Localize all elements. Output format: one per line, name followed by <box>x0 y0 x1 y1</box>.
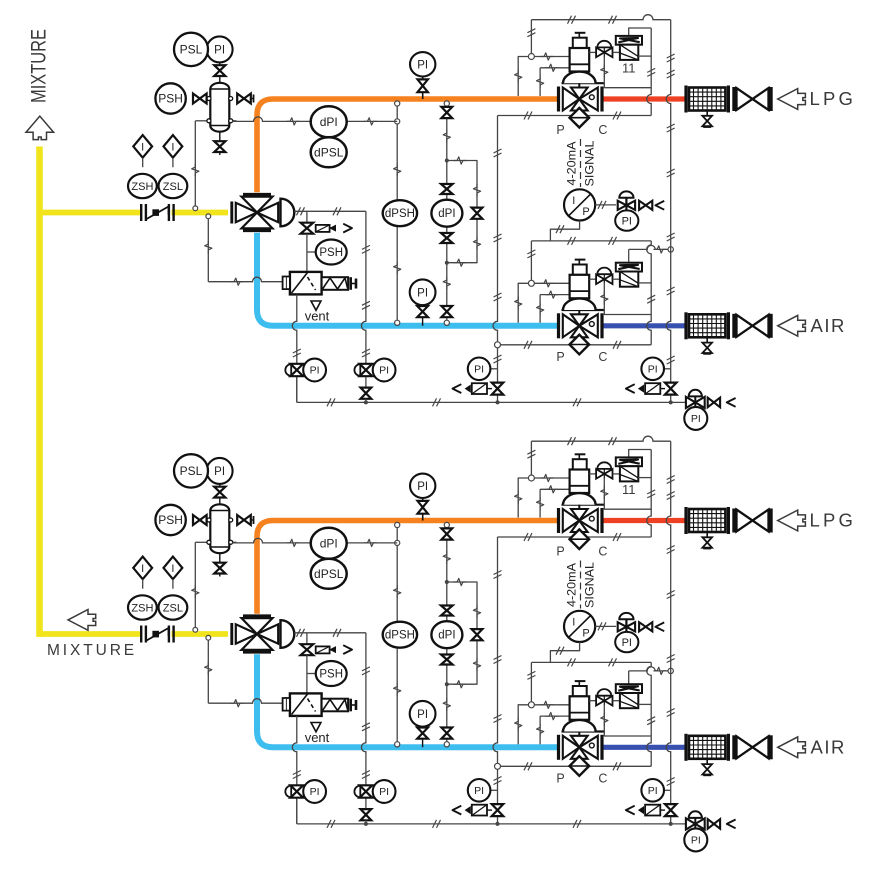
main signal rail bottom (unit 1) <box>297 401 687 403</box>
valve stem (unit 1 LPG) <box>578 83 580 99</box>
svg-text:PI: PI <box>691 413 701 425</box>
svg-text:PI: PI <box>214 466 225 478</box>
vessel top valve (unit 2) <box>219 498 221 505</box>
vent arrow (unit 1) <box>311 301 321 310</box>
svg-text:dPSL: dPSL <box>314 567 344 581</box>
svg-text:PSH: PSH <box>158 513 183 527</box>
svg-text:LPG: LPG <box>810 510 857 531</box>
vessel left isolation valve (unit 2) <box>193 515 200 525</box>
line to solenoid (unit 1) <box>306 234 308 272</box>
position switch ZSL (unit 1) <box>159 174 188 198</box>
solenoid spring (unit 1) <box>322 277 349 290</box>
solenoid spring (unit 2) <box>322 699 349 712</box>
LPG inlet valve (unit 1) <box>732 87 735 111</box>
dPI gauge (unit 1) <box>431 200 462 227</box>
check valve (unit 2) <box>140 626 142 643</box>
positioner body (unit 2 LPG) <box>620 466 638 481</box>
vent pilot valve (unit 2) <box>301 644 314 650</box>
actuator diaphragm (unit 1 AIR) <box>562 309 605 311</box>
diaphragm tap line (unit 1 AIR) <box>604 284 651 315</box>
left signal drop (unit 2 LPG) <box>530 441 532 478</box>
three-way valve actuator (unit 2) <box>281 620 295 648</box>
diaphragm tap line (unit 1 LPG) <box>604 57 651 88</box>
mixture header pipe (yellow vertical) <box>36 147 43 637</box>
rail end valve with regulator (unit 1) <box>689 390 702 397</box>
svg-text:PSL: PSL <box>180 464 203 478</box>
svg-text:dPSH: dPSH <box>385 208 415 220</box>
rail end valve with regulator (unit 2) <box>689 811 702 818</box>
svg-text:dPI: dPI <box>320 537 338 551</box>
diaphragm port diamond (unit 2 AIR) <box>578 759 580 766</box>
pilot valve (unit 2 AIR) <box>589 700 596 702</box>
valve stem (unit 2 LPG) <box>578 505 580 521</box>
diaphragm port diamond (unit 1 AIR) <box>578 337 580 344</box>
svg-text:P: P <box>556 771 564 785</box>
PI below I-P valve (unit 1) <box>615 210 638 230</box>
flame arrestor LPG (unit 1) <box>689 88 725 111</box>
positioner spring box (unit 2 AIR) <box>616 684 642 693</box>
signal line right (unit 1 AIR) <box>647 241 651 345</box>
svg-text:dPI: dPI <box>438 630 455 642</box>
dPSH switch (unit 2) <box>383 622 417 648</box>
main signal rail bottom (unit 2) <box>297 823 687 825</box>
cyan air pipe (unit 2) <box>257 654 557 747</box>
diaphragm port diamond (unit 2 LPG) <box>578 532 580 539</box>
svg-text:LPG: LPG <box>810 88 857 109</box>
svg-text:PSH: PSH <box>158 92 183 106</box>
three-way valve actuator (unit 1) <box>281 199 295 227</box>
svg-text:4-20mA: 4-20mA <box>565 142 579 186</box>
signal line from 3-way actuator (unit 1) <box>361 211 366 363</box>
vessel left isolation valve (unit 1) <box>193 94 200 104</box>
AIR inlet valve (unit 1) <box>732 314 735 338</box>
solenoid outlet line (unit 1) <box>292 294 297 402</box>
LPG flow arrow (unit 1) <box>778 89 806 110</box>
I/P converter (unit 1) <box>564 189 595 220</box>
actuator signal line (unit 1) <box>294 210 366 212</box>
actuator diaphragm (unit 2 AIR) <box>562 730 605 732</box>
vent pilot valve (unit 1) <box>301 223 314 229</box>
pneumatic top rail (unit 2 AIR) <box>531 661 651 663</box>
svg-text:PI: PI <box>417 287 428 299</box>
pressure tap 2 (unit 2 LPG) <box>539 489 541 517</box>
svg-text:C: C <box>598 771 607 785</box>
positioner loop top (unit 1 AIR) <box>629 245 671 249</box>
svg-text:PI: PI <box>648 785 658 797</box>
line to solenoid (unit 2) <box>306 655 308 693</box>
vessel top valve (unit 1) <box>219 76 221 83</box>
PI gauge on air pipe (unit 1) <box>422 305 424 326</box>
solenoid outlet line (unit 2) <box>292 716 297 824</box>
diaphragm tap line (unit 2 AIR) <box>604 705 651 736</box>
vent arrow (unit 2) <box>311 723 321 732</box>
pneumatic bottom rail (unit 2 AIR) <box>498 765 652 767</box>
svg-text:PI: PI <box>474 785 484 797</box>
LPG flow arrow (unit 2) <box>778 510 806 531</box>
dPSH switch (unit 1) <box>383 200 417 226</box>
svg-text:PSH: PSH <box>319 247 343 259</box>
tap branch to actuator (unit 1 LPG) <box>534 56 569 58</box>
svg-text:P: P <box>556 545 564 559</box>
svg-text:I: I <box>572 616 575 628</box>
red LPG pipe (unit 2) <box>604 518 686 523</box>
svg-text:dPSL: dPSL <box>314 146 344 160</box>
positioner spring box (unit 2 LPG) <box>616 457 642 466</box>
svg-text:dPI: dPI <box>438 208 455 220</box>
PI gauge on LPG pipe (unit 1) <box>422 77 424 100</box>
yellow mixture pipe (unit 2) <box>40 631 143 637</box>
pneumatic bottom rail (unit 1 AIR) <box>498 344 652 346</box>
svg-text:C: C <box>598 123 607 137</box>
pneumatic top rail (unit 1 LPG) <box>531 15 670 20</box>
left signal drop (unit 2 AIR) <box>530 662 532 704</box>
pressure tap left (unit 2 LPG) <box>518 478 528 518</box>
interlock diamond I-1 (unit 1) <box>133 135 152 158</box>
yellow mixture pipe (unit 1) <box>40 210 143 216</box>
svg-text:SIGNAL: SIGNAL <box>583 140 597 186</box>
blue air supply pipe (unit 2) <box>604 745 686 750</box>
three-way mixing valve (unit 2) <box>230 623 233 645</box>
valve body (unit 1 LPG) <box>557 87 560 112</box>
interlock diamond I-1 (unit 2) <box>133 557 152 580</box>
svg-text:P: P <box>556 123 564 137</box>
left signal drop (unit 1 LPG) <box>530 20 532 57</box>
pressure switch PSH-2 (unit 1) <box>307 251 316 253</box>
svg-text:SIGNAL: SIGNAL <box>583 562 597 608</box>
tap branch to actuator (unit 2 AIR) <box>534 704 569 706</box>
flame arrestor AIR (unit 1) <box>689 314 725 337</box>
dP impulse line 1 (unit 2) <box>396 524 398 746</box>
svg-text:PI: PI <box>379 786 389 798</box>
svg-text:P: P <box>582 206 589 218</box>
svg-text:PI: PI <box>622 215 632 227</box>
PI and solenoid right (unit 2) <box>657 789 671 791</box>
AIR inlet valve (unit 2) <box>732 735 735 759</box>
svg-text:ZSH: ZSH <box>131 181 153 193</box>
valve body (unit 2 AIR) <box>557 735 560 760</box>
svg-text:I: I <box>141 141 144 153</box>
actuator stack (unit 2 LPG) <box>575 453 586 455</box>
positioner body (unit 2 AIR) <box>620 693 638 708</box>
actuator stack (unit 1 AIR) <box>575 259 586 261</box>
signal line right (unit 2 AIR) <box>647 662 651 766</box>
valve body (unit 1 AIR) <box>557 313 560 338</box>
svg-text:PI: PI <box>214 44 225 56</box>
pressure tap left (unit 1 LPG) <box>518 57 528 97</box>
pressure switch PSH (unit 2) <box>155 505 185 535</box>
PI gauge on LPG pipe (unit 2) <box>422 498 424 521</box>
positioner loop top (unit 2 AIR) <box>629 667 671 671</box>
PI and solenoid left (unit 2) <box>484 789 498 791</box>
svg-text:PSH: PSH <box>319 669 343 681</box>
dPI gauge (unit 2) <box>431 621 462 648</box>
orange mixed-gas pipe (unit 1) <box>257 99 557 192</box>
svg-text:C: C <box>598 545 607 559</box>
position switch ZSL (unit 2) <box>159 595 188 619</box>
svg-text:ZSL: ZSL <box>163 181 183 193</box>
orange mixed-gas pipe (unit 2) <box>257 521 557 614</box>
svg-text:4-20mA: 4-20mA <box>565 563 579 607</box>
svg-text:I: I <box>572 195 575 207</box>
I/P converter (unit 2) <box>564 611 595 642</box>
positioner body (unit 1 LPG) <box>620 45 638 60</box>
svg-text:AIR: AIR <box>811 315 846 336</box>
three-way mixing valve (unit 1) <box>230 202 233 224</box>
pressure switch PSL (unit 1) <box>174 33 208 66</box>
pressure tap left (unit 2 AIR) <box>518 705 528 745</box>
svg-text:11: 11 <box>622 61 636 76</box>
svg-text:PI: PI <box>379 365 389 377</box>
left signal drop (unit 1 AIR) <box>530 241 532 283</box>
svg-text:PI: PI <box>310 365 320 377</box>
vessel drain valve (unit 2) <box>219 553 221 562</box>
AIR flow arrow (unit 1) <box>778 315 806 336</box>
svg-text:PI: PI <box>310 786 320 798</box>
valve stem (unit 1 AIR) <box>578 310 580 326</box>
pressure tap 2 (unit 1 LPG) <box>539 68 541 96</box>
svg-text:dPSH: dPSH <box>385 630 415 642</box>
flame arrestor LPG (unit 2) <box>689 509 725 532</box>
svg-text:MIXTURE: MIXTURE <box>47 642 137 659</box>
valve body (unit 2 LPG) <box>557 508 560 533</box>
dPI bypass (unit 2) <box>447 582 477 684</box>
I/P feed line (unit 1) <box>550 221 579 241</box>
svg-text:AIR: AIR <box>811 737 846 758</box>
mixture outlet arrow (unit 2) <box>68 610 96 631</box>
pressure regulator 2 (unit 1) <box>365 376 367 387</box>
pilot valve (unit 1 LPG) <box>589 51 596 53</box>
pressure tap 2 (unit 2 AIR) <box>539 716 541 744</box>
diaphragm tap line (unit 2 LPG) <box>604 479 651 510</box>
pressure regulator 2 (unit 2) <box>365 798 367 809</box>
dPI dPSL transmitters (unit 2) <box>232 538 311 543</box>
position switch ZSH (unit 1) <box>128 174 157 198</box>
signal line left drop (unit 1) <box>493 116 498 403</box>
svg-text:I: I <box>171 141 174 153</box>
interlock diamond I-2 (unit 1) <box>164 135 183 158</box>
blue air supply pipe (unit 1) <box>604 323 686 328</box>
svg-text:11: 11 <box>622 482 636 497</box>
positioner spring box (unit 1 AIR) <box>616 263 642 272</box>
svg-text:C: C <box>598 350 607 364</box>
PI and solenoid right (unit 1) <box>657 368 671 370</box>
AIR flow arrow (unit 2) <box>778 737 806 758</box>
pressure gauge PI on vessel (unit 2) <box>207 458 233 484</box>
positioner body (unit 1 AIR) <box>620 272 638 287</box>
signal line right (unit 1 LPG) <box>647 28 651 116</box>
LPG inlet valve (unit 2) <box>732 509 735 533</box>
pressure tap 2 (unit 1 AIR) <box>539 295 541 323</box>
3-2 solenoid vent valve (unit 2) <box>290 693 322 716</box>
vessel impulse drop to mixture line (unit 1) <box>194 121 196 208</box>
solenoid supply tap (unit 1) <box>206 214 211 219</box>
position switch ZSH (unit 2) <box>128 595 157 619</box>
vessel right test valve (unit 2) <box>237 515 244 525</box>
tap branch to actuator (unit 2 LPG) <box>534 477 569 479</box>
I/P output valve (unit 1) <box>595 204 616 206</box>
pressure switch PSH-2 (unit 2) <box>307 673 316 675</box>
svg-text:I: I <box>141 563 144 575</box>
svg-text:PI: PI <box>691 835 701 847</box>
cyan air pipe (unit 1) <box>257 233 557 326</box>
positioner output line (unit 2 AIR) <box>638 703 651 705</box>
positioner output line (unit 1 AIR) <box>638 282 651 284</box>
svg-text:PI: PI <box>417 59 428 71</box>
svg-text:vent: vent <box>305 309 330 324</box>
I/P output valve (unit 2) <box>595 625 616 627</box>
svg-text:MIXTURE: MIXTURE <box>28 29 51 103</box>
pressure switch PSL (unit 2) <box>174 454 208 487</box>
dPI dPSL transmitters (unit 1) <box>232 117 311 122</box>
positioner loop top (unit 1 LPG) <box>629 28 652 36</box>
3-2 solenoid vent valve (unit 1) <box>290 272 322 295</box>
solenoid supply tap (unit 2) <box>206 635 211 640</box>
PI gauge on air pipe (unit 2) <box>422 727 424 748</box>
main signal line right (unit 2) <box>666 441 671 824</box>
pneumatic bottom rail (unit 1 LPG) <box>498 115 652 117</box>
svg-text:PSL: PSL <box>180 43 203 57</box>
svg-text:PI: PI <box>417 481 428 493</box>
mixture outlet arrow (unit 1) <box>26 116 54 140</box>
actuator diaphragm (unit 1 LPG) <box>562 82 605 84</box>
actuator stack (unit 1 LPG) <box>575 32 586 34</box>
svg-text:ZSH: ZSH <box>131 602 153 614</box>
signal line right (unit 2 LPG) <box>647 450 651 538</box>
actuator signal line (unit 2) <box>294 632 366 634</box>
vessel impulse drop to mixture line (unit 2) <box>194 542 196 629</box>
dP impulse line 2 (unit 2) <box>446 524 448 746</box>
dPI bypass (unit 1) <box>447 161 477 263</box>
pneumatic top rail (unit 2 LPG) <box>531 436 670 441</box>
positioner loop top (unit 2 LPG) <box>629 450 652 458</box>
main signal line right (unit 1) <box>666 20 671 403</box>
svg-text:dPI: dPI <box>320 115 338 129</box>
valve stem (unit 2 AIR) <box>578 732 580 748</box>
pneumatic bottom rail (unit 2 LPG) <box>498 536 652 538</box>
pilot valve (unit 1 AIR) <box>589 278 596 280</box>
positioner spring box (unit 1 LPG) <box>616 36 642 45</box>
svg-text:PI: PI <box>474 364 484 376</box>
check valve (unit 1) <box>140 204 142 221</box>
red LPG pipe (unit 1) <box>604 96 686 101</box>
pilot valve (unit 2 LPG) <box>589 473 596 475</box>
positioner output line (unit 1 LPG) <box>638 55 651 57</box>
filter vessel (unit 1) <box>195 120 210 122</box>
filter vessel (unit 2) <box>195 541 210 543</box>
svg-text:PI: PI <box>622 637 632 649</box>
svg-text:vent: vent <box>305 730 330 745</box>
svg-text:PI: PI <box>648 364 658 376</box>
pressure regulator 1 (unit 2) <box>296 798 298 824</box>
dP impulse line 1 (unit 1) <box>396 102 398 323</box>
pressure switch PSH (unit 1) <box>155 83 185 113</box>
vessel right test valve (unit 1) <box>237 94 244 104</box>
tap branch to actuator (unit 1 AIR) <box>534 282 569 284</box>
pneumatic top rail (unit 1 AIR) <box>531 240 651 242</box>
pressure regulator 1 (unit 1) <box>296 376 298 402</box>
pressure gauge PI on vessel (unit 1) <box>207 36 233 62</box>
PI and solenoid left (unit 1) <box>484 368 498 370</box>
svg-text:P: P <box>556 350 564 364</box>
vessel drain valve (unit 1) <box>219 132 221 141</box>
flame arrestor AIR (unit 2) <box>689 736 725 759</box>
svg-text:I: I <box>171 563 174 575</box>
actuator diaphragm (unit 2 LPG) <box>562 504 605 506</box>
pressure tap left (unit 1 AIR) <box>518 283 528 323</box>
actuator stack (unit 2 AIR) <box>575 680 586 682</box>
diaphragm port diamond (unit 1 LPG) <box>578 111 580 118</box>
dP impulse line 2 (unit 1) <box>446 102 448 323</box>
svg-text:P: P <box>582 628 589 640</box>
positioner output line (unit 2 LPG) <box>638 477 651 479</box>
PI below I-P valve (unit 2) <box>615 632 638 652</box>
interlock diamond I-2 (unit 2) <box>164 557 183 580</box>
signal line left drop (unit 2) <box>493 537 498 824</box>
signal line from 3-way actuator (unit 2) <box>361 633 366 786</box>
I/P feed line (unit 2) <box>550 642 579 662</box>
svg-text:PI: PI <box>417 709 428 721</box>
svg-text:ZSL: ZSL <box>163 602 183 614</box>
